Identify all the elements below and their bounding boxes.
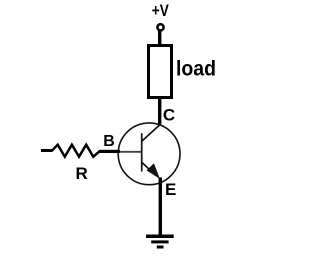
wire resistor to base: [100, 150, 121, 153]
load resistor box: [149, 46, 172, 98]
svg-text:R: R: [76, 164, 88, 183]
svg-text:E: E: [165, 180, 176, 199]
wire left stub: [41, 149, 53, 152]
wire emitter to ground: [159, 178, 162, 237]
svg-text:C: C: [163, 106, 175, 125]
+V terminal circle: [157, 24, 163, 30]
wire terminal to load: [158, 31, 161, 46]
svg-text:load: load: [176, 57, 216, 81]
svg-text:B: B: [103, 133, 115, 150]
transistor Q1 (NPN): [118, 123, 180, 185]
wire load to collector: [158, 99, 161, 126]
ground bar 2: [151, 240, 168, 243]
ground bar 3: [157, 246, 164, 249]
resistor R zigzag: [52, 145, 100, 157]
ground bar 1: [146, 235, 174, 239]
svg-text:+V: +V: [152, 2, 169, 20]
